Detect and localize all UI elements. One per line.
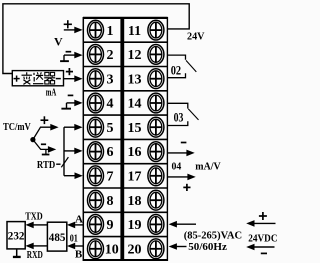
svg-text:13: 13 — [128, 72, 142, 87]
terminal screw 9 — [88, 215, 104, 235]
svg-text:5: 5 — [107, 121, 114, 136]
hanzi bian — [22, 72, 32, 84]
TXD wire — [32, 224, 47, 226]
terminal screw 14 — [148, 93, 164, 113]
wire into terminal 5 — [64, 126, 76, 128]
svg-text:20: 20 — [128, 242, 142, 257]
wire terminal 9 to 485 (A) — [74, 224, 83, 226]
svg-text:232: 232 — [8, 228, 25, 242]
minus label for terminal 2 — [66, 51, 72, 53]
terminal screw 16 — [148, 142, 164, 162]
terminal row separator 7/8 — [83, 187, 167, 189]
wire into terminal 2 with common bar — [64, 54, 75, 56]
wire out of terminal 17 — [168, 176, 188, 178]
24VDC minus wire — [254, 246, 275, 248]
input bus vertical wire — [63, 127, 65, 176]
terminal screw 20 — [148, 239, 164, 259]
terminal screw 5 — [88, 117, 104, 137]
TC minus common bar — [45, 149, 47, 154]
minus label for TC — [41, 143, 46, 145]
minus sign in transmitter box — [56, 78, 61, 80]
svg-text:4: 4 — [107, 97, 114, 112]
svg-text:TXD: TXD — [25, 211, 42, 222]
wire terminal 10 to 485 (B) — [74, 245, 83, 247]
ground bar under 232 box — [16, 249, 18, 257]
svg-text:15: 15 — [128, 121, 142, 136]
minus label for terminal 16 — [181, 142, 187, 144]
svg-text:mA/V: mA/V — [195, 161, 221, 172]
wire from transmitter into terminal 3 — [64, 78, 76, 80]
svg-text:3: 3 — [107, 72, 114, 87]
terminal screw 4 — [88, 93, 104, 113]
terminal screw 19 — [148, 215, 164, 235]
plus label for terminal 1 — [64, 23, 72, 25]
svg-text:9: 9 — [107, 218, 114, 233]
terminal screw 13 — [148, 69, 164, 89]
terminal screw 7 — [88, 166, 104, 186]
terminal screw 15 — [148, 117, 164, 137]
wire into terminal 6 — [64, 150, 76, 152]
minus label 24VDC — [261, 252, 267, 254]
terminal row separator 1/2 — [83, 41, 167, 43]
wire into terminal 4 with common bar — [67, 102, 76, 104]
three-wire slash — [61, 157, 68, 167]
svg-text:17: 17 — [128, 170, 142, 185]
svg-text:16: 16 — [128, 145, 142, 160]
terminal row separator 4/5 — [83, 114, 167, 116]
svg-text:B: B — [75, 248, 83, 260]
relay contact O3 — [168, 103, 199, 125]
svg-text:11: 11 — [128, 24, 141, 39]
svg-text:RXD: RXD — [27, 250, 43, 261]
wire into terminal 7 — [64, 175, 76, 177]
TC plus branch wire — [33, 127, 51, 139]
terminal screw 18 — [148, 190, 164, 210]
svg-text:TC/mV: TC/mV — [3, 122, 31, 133]
svg-text:24VDC: 24VDC — [248, 234, 277, 245]
terminal screw 11 — [148, 20, 164, 40]
RXD wire — [32, 245, 47, 247]
svg-text:50/60Hz: 50/60Hz — [188, 241, 227, 253]
wire into terminal 19 (AC) — [176, 223, 196, 225]
wire out of terminal 16 — [168, 152, 187, 154]
plus label for terminal 17 — [183, 186, 190, 188]
terminal screw 8 — [88, 190, 104, 210]
svg-text:01: 01 — [70, 234, 78, 245]
thermocouple junction dot — [30, 137, 35, 142]
svg-text:6: 6 — [107, 145, 114, 160]
terminal row separator 6/7 — [83, 163, 167, 165]
svg-text:1: 1 — [107, 24, 114, 39]
hanzi qi — [44, 72, 55, 84]
wire: 24V loop from terminal 11 to transmitter — [3, 4, 189, 74]
svg-text:V: V — [54, 35, 63, 49]
relay contact O2 — [168, 55, 197, 78]
terminal row separator 2/3 — [83, 66, 167, 68]
svg-text:12: 12 — [128, 48, 142, 63]
TC minus branch wire — [33, 140, 50, 150]
terminal block outline — [83, 17, 168, 261]
svg-text:8: 8 — [107, 194, 114, 209]
RS485 box — [47, 222, 66, 251]
24VDC plus wire — [254, 222, 276, 224]
svg-text:03: 03 — [174, 111, 184, 125]
terminal screw 12 — [148, 45, 164, 65]
terminal row separator 3/4 — [83, 90, 167, 92]
terminal screw 1 — [88, 20, 104, 40]
terminal screw 10 — [88, 239, 104, 259]
svg-text:RTD: RTD — [37, 160, 56, 171]
svg-text:7: 7 — [107, 170, 114, 185]
plus label for terminal 3 — [66, 71, 73, 73]
svg-text:10: 10 — [105, 242, 119, 257]
svg-text:19: 19 — [128, 218, 142, 233]
terminal block center divider — [120, 17, 124, 261]
svg-text:24V: 24V — [187, 31, 205, 43]
svg-text:(85-265)VAC: (85-265)VAC — [184, 230, 242, 242]
plus sign in transmitter box — [14, 78, 20, 80]
plus label 24VDC — [259, 215, 267, 217]
RS232 box — [7, 222, 25, 249]
terminal screw 6 — [88, 142, 104, 162]
terminal row separator 8/9 — [83, 211, 167, 213]
svg-text:04: 04 — [172, 161, 183, 172]
terminal screw 17 — [148, 166, 164, 186]
wire into terminal 20 (AC) — [176, 246, 187, 248]
terminal row separator 9/10 — [83, 236, 167, 238]
terminal row separator 5/6 — [83, 138, 167, 140]
hanzi song — [33, 72, 43, 83]
svg-text:18: 18 — [128, 194, 142, 209]
svg-text:2: 2 — [107, 48, 114, 63]
transmitter box (+bian song qi-) — [12, 71, 63, 86]
svg-text:mA: mA — [46, 88, 57, 99]
svg-text:485: 485 — [49, 230, 66, 244]
wire into terminal 1 — [64, 29, 75, 31]
terminal screw 2 — [88, 45, 104, 65]
terminal screw 3 — [88, 69, 104, 89]
svg-text:14: 14 — [128, 97, 142, 112]
svg-text:A: A — [75, 214, 83, 226]
plus label for TC — [41, 119, 49, 121]
svg-text:02: 02 — [171, 63, 181, 77]
minus label for terminal 4 — [68, 94, 74, 96]
RTD stub wire — [56, 163, 60, 165]
